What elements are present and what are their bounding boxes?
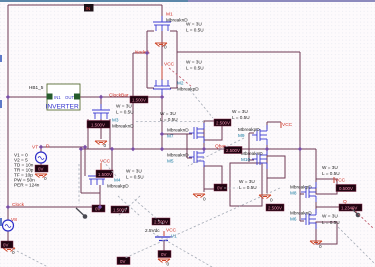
svg-text:W = 3U: W = 3U [232, 109, 248, 114]
port IN [84, 4, 94, 12]
svg-text:L = 0.5U: L = 0.5U [322, 171, 340, 176]
svg-text:0: 0 [164, 45, 167, 50]
wire M6 bulk loop [316, 222, 337, 244]
svg-text:L = 0.5U: L = 0.5U [239, 185, 257, 190]
ground 0 M6 [310, 241, 322, 249]
wire left rail of M1/M2 [146, 31, 148, 88]
dash horizontal W/L row [136, 121, 204, 123]
wire NodeA vertical [132, 53, 134, 149]
ground 0 mid-stack [155, 43, 167, 50]
value M9 W/L [232, 109, 250, 120]
bias box battery 2.500V [152, 218, 170, 225]
transistor M10 [252, 149, 267, 169]
wire M4 bottom jog [81, 192, 100, 194]
value M4 W/L [126, 169, 144, 180]
ground 0 M3 [95, 141, 107, 148]
svg-text:0V: 0V [3, 243, 8, 248]
svg-text:MbreaknD: MbreaknD [290, 211, 312, 216]
svg-text:MbreaknD: MbreaknD [112, 124, 134, 129]
svg-text:0V: 0V [38, 167, 43, 172]
wire M6 ground stem [315, 230, 317, 240]
wire NodeA jog [133, 52, 147, 54]
svg-text:W = 3U: W = 3U [322, 214, 338, 219]
svg-text:1.500V: 1.500V [132, 98, 146, 103]
wire M1-M2 mid stem [161, 31, 163, 80]
wire M10 gate lead [249, 159, 254, 161]
dash M2 to M7 box [190, 90, 213, 118]
bias box VT 0V [35, 165, 48, 172]
svg-text:PER = 124n: PER = 124n [14, 183, 40, 188]
svg-text:W = 3U: W = 3U [116, 104, 132, 109]
transistor M6 [301, 209, 316, 229]
label M9 [238, 127, 260, 138]
wire M8 gate lead [300, 193, 304, 195]
svg-text:W = 3U: W = 3U [322, 165, 338, 170]
bias box ClockBar 1.500V [130, 96, 148, 103]
dash X near clock a [118, 196, 140, 216]
wire M5 gate lead [187, 157, 192, 159]
label M2 [177, 81, 199, 92]
svg-text:VCC: VCC [164, 62, 175, 68]
dash X near clock b [118, 196, 140, 216]
svg-text:2.500V: 2.500V [226, 148, 240, 153]
bias box M8 0.500V [336, 185, 356, 192]
wire VT stem down [40, 163, 42, 172]
svg-text:1.2349V: 1.2349V [341, 206, 357, 211]
transistor M2 [153, 80, 171, 95]
wire D gate drop [84, 147, 86, 176]
transistor M9 [252, 125, 267, 145]
label M8 [290, 185, 312, 196]
svg-text:0: 0 [12, 250, 15, 255]
wire M6 gate lead [300, 220, 304, 222]
VCC symbol mid stack [162, 62, 175, 80]
transistor M5 [189, 147, 204, 167]
wire far-right vertical to gates [299, 52, 301, 221]
bias box battery gnd 0V [158, 251, 171, 258]
svg-text:W = 3U: W = 3U [126, 169, 142, 174]
svg-text:M7: M7 [167, 134, 174, 139]
source V8 [3, 217, 18, 231]
svg-text:1.500V: 1.500V [98, 172, 112, 177]
source VT [32, 144, 50, 164]
svg-text:2.5Vdc: 2.5Vdc [145, 228, 160, 233]
svg-text:L = 0.5U: L = 0.5U [126, 175, 144, 180]
svg-text:0: 0 [167, 262, 170, 267]
wire ClockBar [80, 96, 162, 98]
wire M8 drain drop [315, 149, 317, 180]
wire top IN net [8, 4, 162, 6]
wire Clock [8, 206, 100, 208]
dash battery up-left [134, 199, 163, 224]
wire M9/M10 junction stem [266, 145, 268, 156]
wire M7-M5 stem [203, 140, 205, 153]
svg-text:0: 0 [319, 244, 322, 249]
wire M7/M5 gate rail [186, 134, 188, 158]
svg-text:MbreaknD: MbreaknD [167, 153, 189, 158]
wire Q stem [315, 202, 317, 213]
wire M2 to ClockBar and down to QBar [161, 92, 163, 149]
wire M8 source loop [316, 179, 337, 194]
transistor M3 [92, 104, 110, 119]
svg-text:VCC: VCC [335, 178, 346, 184]
wire M9/M10 gate rail [248, 133, 250, 162]
wire M9 gate lead [249, 132, 254, 134]
svg-text:MbreakpD: MbreakpD [177, 87, 199, 92]
svg-text:2.500V: 2.500V [154, 220, 168, 225]
bias box Qbar 2.500V [224, 147, 242, 154]
dash battery down-right [153, 233, 212, 267]
ground 0 M5 [193, 194, 206, 202]
VT params [14, 153, 40, 188]
dash horizontal M5 [224, 187, 238, 189]
wire M7 drain loop [204, 121, 222, 140]
svg-text:M8: M8 [290, 191, 297, 196]
dash V8 down-right [13, 249, 48, 267]
svg-text:0: 0 [104, 143, 107, 148]
wire M10 source loop [267, 156, 285, 178]
wire M3 right leg [109, 119, 111, 149]
dash long NE-SW through battery region [125, 188, 280, 258]
value M7 W/L [160, 111, 178, 122]
bias box V8 [1, 241, 13, 248]
svg-text:M5: M5 [167, 159, 174, 164]
probe Q [352, 209, 360, 217]
svg-text:ClockBar: ClockBar [109, 93, 129, 99]
ground 0 battery [158, 259, 170, 267]
probe Clock [76, 208, 87, 219]
svg-text:M2: M2 [177, 81, 184, 86]
svg-text:0.500V: 0.500V [339, 186, 353, 191]
wire M5 ground stem [203, 189, 205, 192]
svg-text:MbreaknD: MbreaknD [241, 151, 263, 156]
svg-text:VCC: VCC [282, 122, 293, 128]
bias box 0V floating [117, 257, 130, 265]
svg-text:MbreaknD: MbreaknD [166, 18, 188, 23]
label M6 [290, 211, 312, 222]
svg-text:M3: M3 [112, 118, 119, 123]
wire M3 left leg [87, 119, 89, 149]
svg-text:M6: M6 [290, 217, 297, 222]
bias box M4 1.500V [96, 170, 113, 178]
svg-text:L = 0.5U: L = 0.5U [186, 28, 204, 33]
wire QBar horizontal [81, 148, 316, 150]
svg-text:M4: M4 [114, 178, 121, 183]
svg-text:0: 0 [203, 197, 206, 202]
wire M4 right leg [111, 149, 113, 178]
wire M4 source to Clock [99, 185, 101, 207]
wire M7 gate lead [187, 133, 192, 135]
dash Q down-right [338, 227, 374, 263]
wire M3 tap [100, 97, 102, 108]
label M1 [166, 12, 188, 23]
wire M10 ground stem [266, 178, 268, 193]
value M6 W/L [322, 214, 340, 226]
svg-text:0: 0 [44, 176, 47, 181]
bias box M5 0V [214, 184, 227, 191]
ground 0 VT [35, 174, 47, 181]
wire M9 drain drop [266, 122, 268, 129]
left toolbar slivers [0, 55, 2, 62]
svg-text:0V: 0V [161, 252, 166, 257]
bias box Clock corner 0V [92, 205, 105, 212]
label M3 [112, 118, 134, 129]
svg-text:W = 3U: W = 3U [239, 179, 255, 184]
wire feedback box [230, 163, 262, 206]
svg-text:1.500V: 1.500V [113, 208, 127, 213]
svg-text:VT: VT [32, 145, 38, 151]
value M8 W/L [322, 165, 340, 176]
bias box 1.500V floating [111, 206, 129, 213]
svg-text:W = 3U: W = 3U [160, 111, 176, 116]
transistor M8 [301, 182, 316, 202]
wire M1 drain drop [161, 5, 163, 21]
svg-text:HB1_5: HB1_5 [29, 85, 44, 90]
dash M7 box to M5 [188, 138, 244, 166]
wire Q lead right [316, 206, 340, 208]
svg-text:L = 0.5U: L = 0.5U [116, 110, 134, 115]
svg-text:Clock: Clock [12, 202, 25, 208]
wire right rail to far right [177, 51, 300, 53]
wire inverter input [8, 96, 47, 98]
wire M3 source stem [100, 119, 102, 139]
label M7 [167, 128, 189, 139]
svg-text:L = 0.5U: L = 0.5U [232, 115, 250, 120]
svg-text:W = 3U: W = 3U [186, 60, 202, 65]
wire below V8 [7, 231, 9, 243]
svg-text:MbreakpD: MbreakpD [238, 127, 260, 132]
value M3 W/L [116, 104, 134, 115]
dash inside M4 [103, 161, 117, 177]
ground 0 M10 [259, 195, 273, 203]
window top edge right [188, 0, 375, 2]
wire M7 gate feed [162, 133, 187, 135]
svg-text:IN: IN [86, 6, 91, 12]
svg-text:L = 0.5U: L = 0.5U [186, 66, 204, 71]
svg-text:IN1: IN1 [54, 95, 61, 100]
transistor M7 [189, 123, 204, 143]
dashed rubber lines [13, 90, 374, 267]
svg-text:W = 3U: W = 3U [186, 22, 202, 27]
wire M9 VCC lead [267, 121, 281, 123]
svg-text:0V: 0V [217, 186, 222, 191]
inverter U-HB1_5 [29, 84, 80, 111]
svg-text:1.500V: 1.500V [91, 123, 105, 128]
dash vertical left of M4 [78, 164, 80, 204]
svg-text:V8: V8 [11, 217, 17, 223]
svg-text:MbreaknD: MbreaknD [167, 128, 189, 133]
battery V1 VCC [145, 228, 177, 241]
label M10 [241, 151, 263, 162]
VCC symbol M8 [334, 177, 346, 184]
svg-text:2.500V: 2.500V [216, 121, 230, 126]
bias box M7 2.500V [214, 119, 231, 126]
transistor M1 [153, 16, 171, 31]
VCC symbol M4 [100, 159, 111, 171]
VCC symbol M9 [281, 122, 293, 128]
ground 0 V8 [3, 248, 15, 255]
wire left border vertical [7, 5, 9, 220]
wire VT stem up [40, 147, 42, 152]
wire VT top [41, 146, 85, 148]
wire right rail of M1/M2 [176, 31, 178, 88]
svg-text:0V: 0V [120, 259, 125, 264]
svg-text:INVERTER: INVERTER [46, 104, 79, 111]
dash red near M2 [169, 68, 192, 87]
wire M5 source loop [204, 166, 222, 189]
svg-text:MbreakpD: MbreakpD [290, 185, 312, 190]
wire rail jogs [147, 30, 154, 32]
wire M4 left leg [80, 149, 82, 193]
svg-text:MbreakpD: MbreakpD [107, 184, 129, 189]
svg-text:D: D [46, 144, 50, 150]
wire battery stem [163, 240, 165, 252]
svg-text:2.500V: 2.500V [268, 206, 282, 211]
svg-text:M10: M10 [241, 157, 251, 162]
transistor M4 [88, 170, 106, 185]
svg-text:VCC: VCC [100, 159, 111, 165]
value M1 W/L [186, 22, 204, 33]
bias box M3 1.500V [87, 121, 110, 129]
window top edge left [0, 0, 190, 2]
value M2 W/L [186, 60, 204, 71]
svg-text:OUT: OUT [65, 95, 74, 100]
dash red near Q probe [352, 208, 374, 229]
bias box Q 1.2349V [339, 204, 362, 211]
label M5 [167, 153, 189, 164]
svg-text:0: 0 [270, 198, 273, 203]
svg-text:M9: M9 [238, 133, 245, 138]
svg-text:L = 0.5U: L = 0.5U [322, 220, 340, 225]
bias box M10 2.500V [266, 204, 284, 211]
value M10 W/L [239, 179, 257, 190]
label M4 [107, 178, 129, 189]
